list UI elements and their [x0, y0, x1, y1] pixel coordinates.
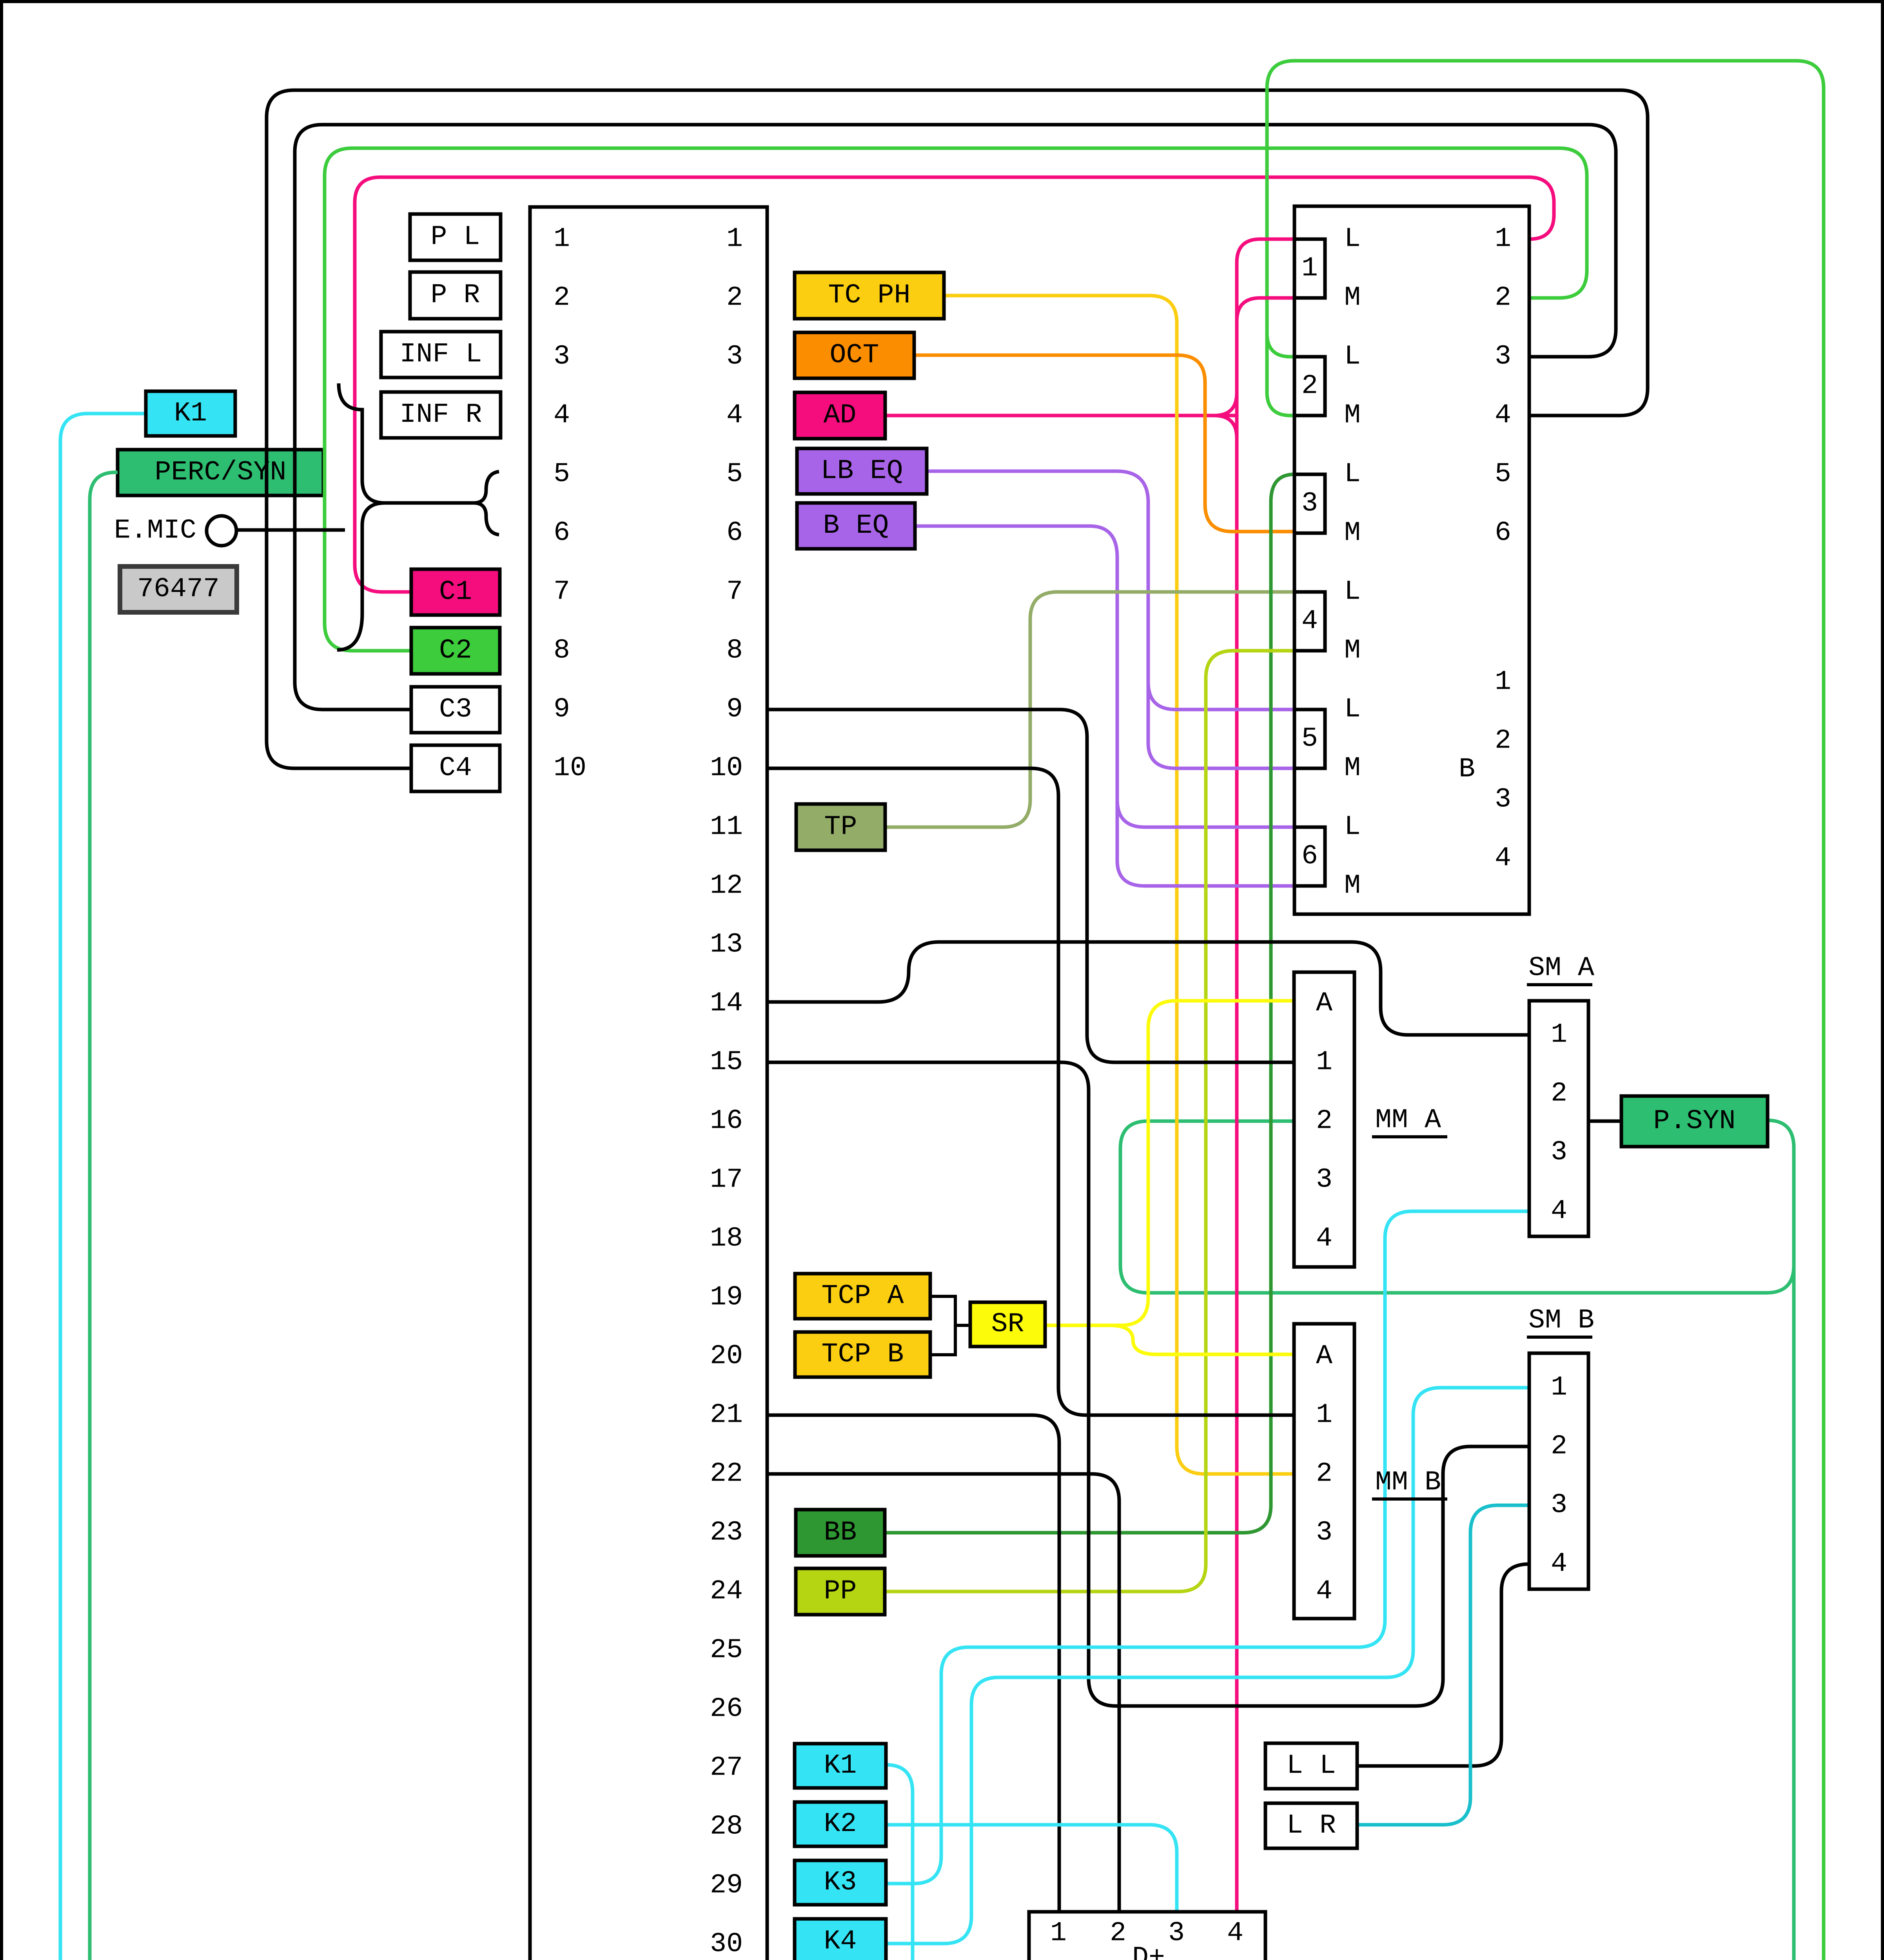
- B port 1: [1294, 239, 1325, 298]
- SM A title: [1527, 953, 1594, 985]
- wire BB to L3: [885, 474, 1294, 1533]
- PB right number 19: [710, 1282, 743, 1313]
- svg-text:9: 9: [554, 694, 570, 725]
- svg-text:TCP A: TCP A: [821, 1281, 904, 1312]
- B port 2: [1294, 357, 1325, 416]
- PB right number 2: [726, 283, 743, 314]
- svg-text:4: 4: [1316, 1223, 1332, 1254]
- B port 6: [1294, 827, 1325, 886]
- SM A pin 1: [1551, 1020, 1567, 1051]
- TP box: [796, 804, 885, 850]
- K3 box: [795, 1860, 886, 1905]
- svg-text:M: M: [1344, 400, 1361, 431]
- B port 5: [1294, 710, 1325, 768]
- wire row9 to MM A 1: [767, 710, 1294, 1062]
- MM A title: [1372, 1105, 1447, 1137]
- wire TC PH to MM B 2: [944, 296, 1294, 1474]
- svg-text:3: 3: [554, 341, 570, 372]
- PB right number 27: [710, 1753, 743, 1784]
- SM B pin 1: [1551, 1372, 1567, 1403]
- PB right number 30: [710, 1929, 743, 1960]
- C3 box: [411, 687, 500, 733]
- svg-text:76477: 76477: [137, 574, 220, 605]
- svg-text:11: 11: [710, 812, 743, 843]
- MM A label 4: [1316, 1223, 1332, 1254]
- svg-text:1: 1: [1316, 1047, 1332, 1078]
- K1 left box: [146, 391, 235, 436]
- svg-text:22: 22: [710, 1459, 743, 1490]
- svg-text:MM A: MM A: [1375, 1105, 1441, 1136]
- svg-text:2: 2: [1316, 1106, 1332, 1137]
- B M label 1: [1344, 283, 1361, 314]
- MM A label A: [1316, 988, 1332, 1019]
- wire SM A 2 to P.SYN: [1588, 1120, 1621, 1123]
- svg-text:2: 2: [1316, 1459, 1332, 1490]
- svg-text:M: M: [1344, 871, 1361, 902]
- svg-text:INF R: INF R: [399, 399, 482, 430]
- PB right number 26: [710, 1694, 743, 1725]
- wire D loop stub M2: [1267, 392, 1294, 416]
- B right number 6: [1495, 518, 1511, 549]
- svg-text:5: 5: [1495, 459, 1511, 490]
- wire SR to MM B A: [1045, 1325, 1294, 1354]
- SM B title: [1527, 1305, 1594, 1338]
- svg-text:8: 8: [554, 635, 570, 666]
- svg-text:TP: TP: [824, 812, 857, 843]
- SM A connector: [1529, 1001, 1588, 1236]
- wire L L to SM B 4: [1357, 1564, 1529, 1766]
- PERC/SYN box: [118, 450, 323, 495]
- B lower number 2: [1495, 726, 1511, 757]
- svg-text:2: 2: [554, 283, 570, 314]
- TC PH box: [795, 272, 944, 319]
- L L box: [1265, 1743, 1357, 1789]
- svg-text:15: 15: [710, 1047, 743, 1078]
- svg-text:K2: K2: [824, 1809, 857, 1840]
- svg-text:4: 4: [1551, 1549, 1567, 1580]
- PB right number 11: [710, 812, 743, 843]
- patch bay box: [530, 207, 767, 1960]
- svg-text:6: 6: [726, 518, 743, 549]
- B L label 3: [1344, 459, 1361, 490]
- svg-text:1: 1: [1551, 1020, 1567, 1051]
- svg-text:3: 3: [1168, 1918, 1185, 1949]
- B L label 1: [1344, 224, 1361, 255]
- MM A label 3: [1316, 1165, 1332, 1196]
- svg-text:3: 3: [1551, 1490, 1567, 1521]
- svg-text:P L: P L: [430, 222, 480, 253]
- svg-text:27: 27: [710, 1753, 743, 1784]
- PB right number 8: [726, 635, 743, 666]
- wire C1 loop to B right 1: [355, 177, 1554, 592]
- svg-text:L: L: [1344, 341, 1361, 372]
- B L label 2: [1344, 341, 1361, 372]
- PB left number 9: [554, 694, 570, 725]
- svg-text:4: 4: [554, 400, 570, 431]
- svg-text:3: 3: [726, 341, 743, 372]
- brace link line: [385, 501, 474, 505]
- svg-text:6: 6: [554, 518, 570, 549]
- wire LB EQ vertical: [927, 471, 1148, 743]
- wire row15 to SM B 2: [767, 1062, 1529, 1706]
- PB left number 4: [554, 400, 570, 431]
- PP box: [796, 1568, 885, 1615]
- B right number 3: [1495, 341, 1511, 372]
- wire K3 to SM A 4: [885, 1211, 1529, 1884]
- B M label 4: [1344, 635, 1361, 666]
- B L label 5: [1344, 694, 1361, 725]
- B right number 1: [1495, 224, 1511, 255]
- PB right number 23: [710, 1517, 743, 1548]
- PB right number 1: [726, 224, 743, 255]
- PB left number 1: [554, 224, 570, 255]
- B M label 5: [1344, 753, 1361, 784]
- svg-text:1: 1: [1551, 1372, 1567, 1403]
- left brace: [337, 383, 385, 650]
- B M label 2: [1344, 400, 1361, 431]
- wire LB EQ stub L5: [1148, 682, 1294, 710]
- svg-text:6: 6: [1495, 518, 1511, 549]
- PB left number 8: [554, 635, 570, 666]
- svg-text:13: 13: [710, 929, 743, 960]
- svg-text:1: 1: [1495, 667, 1511, 698]
- PB right number 20: [710, 1341, 743, 1372]
- svg-text:B EQ: B EQ: [823, 510, 889, 541]
- INF L box: [381, 332, 501, 377]
- wire OCT to M3: [914, 355, 1294, 532]
- wire pink fork curve up: [1214, 393, 1237, 416]
- svg-text:TCP B: TCP B: [821, 1339, 904, 1370]
- svg-text:18: 18: [710, 1223, 743, 1254]
- L R box: [1265, 1803, 1357, 1848]
- svg-text:3: 3: [1316, 1517, 1332, 1548]
- E.MIC line: [237, 528, 345, 532]
- PB right number 13: [710, 929, 743, 960]
- svg-text:D+: D+: [1132, 1943, 1165, 1960]
- wire C3 loop to B right 3: [295, 125, 1616, 710]
- PB right number 29: [710, 1870, 743, 1901]
- wire K1 left loop: [60, 414, 913, 1960]
- svg-text:L R: L R: [1287, 1810, 1336, 1841]
- B M label 6: [1344, 871, 1361, 902]
- K1 box: [795, 1744, 886, 1788]
- right brace fork to rows 5 6: [474, 472, 499, 535]
- PB left number 10: [554, 753, 586, 784]
- PB right number 22: [710, 1459, 743, 1490]
- svg-text:25: 25: [710, 1635, 743, 1666]
- svg-text:2: 2: [1495, 726, 1511, 757]
- svg-text:14: 14: [710, 988, 743, 1019]
- svg-text:2: 2: [1551, 1078, 1567, 1109]
- PB right number 5: [726, 459, 743, 490]
- wire PERC/SYN jade loop to P.SYN: [90, 472, 1794, 1960]
- C4 box: [411, 745, 500, 791]
- wire B EQ vertical: [915, 526, 1117, 860]
- svg-text:3: 3: [1551, 1137, 1567, 1168]
- PB right number 24: [710, 1576, 743, 1607]
- svg-text:M: M: [1344, 635, 1361, 666]
- PB right number 10: [710, 753, 743, 784]
- svg-text:C3: C3: [439, 694, 472, 725]
- svg-text:L: L: [1344, 577, 1361, 608]
- svg-text:C1: C1: [439, 577, 472, 608]
- svg-text:1: 1: [554, 224, 570, 255]
- B lower number 1: [1495, 667, 1511, 698]
- PB right number 3: [726, 341, 743, 372]
- wire LB EQ stub M5: [1148, 743, 1294, 768]
- wire pink vertical to D+ 4: [1235, 263, 1239, 1912]
- svg-text:1: 1: [726, 224, 743, 255]
- svg-text:C2: C2: [439, 635, 472, 666]
- svg-text:19: 19: [710, 1282, 743, 1313]
- svg-text:MM B: MM B: [1375, 1467, 1441, 1498]
- svg-text:10: 10: [554, 753, 586, 784]
- wire PP to M4: [885, 651, 1294, 1592]
- E.MIC label: [114, 515, 196, 546]
- svg-text:L: L: [1344, 459, 1361, 490]
- MM B label A: [1316, 1341, 1332, 1372]
- wire AD horizontal: [885, 414, 1237, 417]
- svg-text:1: 1: [1301, 253, 1318, 284]
- PB right number 15: [710, 1047, 743, 1078]
- svg-text:5: 5: [554, 459, 570, 490]
- wire row22 to D+ 2: [767, 1474, 1119, 1912]
- svg-text:2: 2: [1301, 371, 1318, 402]
- 76477 box: [120, 566, 237, 612]
- svg-text:INF L: INF L: [399, 339, 482, 370]
- wire jade branch to MM A 2: [1120, 1121, 1794, 1293]
- svg-text:16: 16: [710, 1106, 743, 1137]
- wire B EQ stub L6: [1117, 800, 1294, 827]
- SM A pin 4: [1551, 1196, 1567, 1227]
- svg-text:LB EQ: LB EQ: [820, 456, 903, 487]
- wire C4 loop to B right 4: [267, 90, 1648, 768]
- wire pink fork curve down: [1214, 416, 1237, 438]
- SM B connector: [1529, 1353, 1588, 1589]
- MM B connector: [1294, 1324, 1354, 1619]
- wire row21 to D+ 1: [767, 1415, 1059, 1912]
- BB box: [796, 1510, 885, 1556]
- P.SYN box: [1621, 1096, 1768, 1147]
- MM B label 1: [1316, 1400, 1332, 1431]
- C2 box: [411, 628, 500, 674]
- svg-text:AD: AD: [823, 400, 856, 431]
- PB left number 3: [554, 341, 570, 372]
- B port 4: [1294, 592, 1325, 651]
- svg-text:4: 4: [1551, 1196, 1567, 1227]
- SR box: [970, 1302, 1045, 1347]
- svg-text:2: 2: [726, 283, 743, 314]
- svg-text:20: 20: [710, 1341, 743, 1372]
- wire K2 to D+ 3: [885, 1825, 1177, 1912]
- svg-text:BB: BB: [824, 1517, 857, 1548]
- svg-text:30: 30: [710, 1929, 743, 1960]
- svg-text:A: A: [1316, 988, 1332, 1019]
- svg-text:A: A: [1316, 1341, 1332, 1372]
- PB right number 9: [726, 694, 743, 725]
- B L label 6: [1344, 812, 1361, 843]
- svg-text:3: 3: [1495, 784, 1511, 815]
- svg-text:28: 28: [710, 1811, 743, 1842]
- K2 box: [795, 1802, 886, 1846]
- TCP A box: [795, 1274, 930, 1319]
- svg-text:SR: SR: [991, 1309, 1024, 1340]
- B letter: [1459, 754, 1475, 785]
- svg-text:SM A: SM A: [1528, 953, 1594, 984]
- svg-text:E.MIC: E.MIC: [114, 515, 196, 546]
- svg-text:9: 9: [726, 694, 743, 725]
- svg-text:SM B: SM B: [1528, 1305, 1594, 1336]
- svg-text:P.SYN: P.SYN: [1653, 1106, 1735, 1137]
- SM A pin 2: [1551, 1078, 1567, 1109]
- PB right number 17: [710, 1165, 743, 1196]
- wire row14 to SM A 1: [767, 942, 1529, 1035]
- svg-text:7: 7: [554, 577, 570, 608]
- svg-text:4: 4: [1301, 606, 1318, 637]
- PB right number 28: [710, 1811, 743, 1842]
- svg-text:24: 24: [710, 1576, 743, 1607]
- PB left number 6: [554, 518, 570, 549]
- B M label 3: [1344, 518, 1361, 549]
- wire C2 loop to B right 2: [325, 148, 1587, 651]
- SM B pin 2: [1551, 1431, 1567, 1462]
- svg-text:4: 4: [1316, 1576, 1332, 1607]
- MM A label 2: [1316, 1106, 1332, 1137]
- PB left number 2: [554, 283, 570, 314]
- svg-text:L: L: [1344, 694, 1361, 725]
- PB right number 6: [726, 518, 743, 549]
- svg-text:4: 4: [726, 400, 743, 431]
- MM B label 3: [1316, 1517, 1332, 1548]
- svg-text:M: M: [1344, 283, 1361, 314]
- C1 box: [411, 569, 500, 615]
- svg-text:TC PH: TC PH: [828, 280, 910, 311]
- INF R box: [381, 392, 501, 438]
- P L box: [410, 214, 501, 260]
- svg-text:2: 2: [1495, 283, 1511, 314]
- wire B EQ stub M6: [1117, 860, 1294, 886]
- svg-text:3: 3: [1316, 1165, 1332, 1196]
- PB left number 7: [554, 577, 570, 608]
- PB left number 5: [554, 459, 570, 490]
- D+ box: [1029, 1912, 1265, 1960]
- svg-text:1: 1: [1050, 1918, 1067, 1949]
- svg-text:K1: K1: [824, 1750, 857, 1781]
- svg-text:L L: L L: [1287, 1751, 1336, 1782]
- svg-text:23: 23: [710, 1517, 743, 1548]
- B L label 4: [1344, 577, 1361, 608]
- wire pink stub M1: [1237, 298, 1294, 321]
- svg-text:4: 4: [1495, 400, 1511, 431]
- PB right number 18: [710, 1223, 743, 1254]
- P R box: [410, 272, 501, 319]
- svg-text:L: L: [1344, 224, 1361, 255]
- wire D loop stub L2: [1267, 333, 1294, 357]
- wire row10 to MM B 1: [767, 768, 1294, 1415]
- svg-text:M: M: [1344, 518, 1361, 549]
- B right number 4: [1495, 400, 1511, 431]
- MM B label 4: [1316, 1576, 1332, 1607]
- svg-text:5: 5: [1301, 724, 1318, 755]
- svg-text:1: 1: [1495, 224, 1511, 255]
- E.MIC circle: [207, 516, 236, 546]
- wire SR to MM A A: [1045, 1001, 1294, 1325]
- svg-text:K4: K4: [824, 1926, 857, 1957]
- B lower number 3: [1495, 784, 1511, 815]
- B box: [1294, 206, 1529, 914]
- OCT box: [795, 332, 914, 378]
- wire K4 to SM B 1: [885, 1388, 1529, 1944]
- wire pink stub L1: [1237, 239, 1294, 263]
- svg-text:10: 10: [710, 753, 743, 784]
- svg-text:29: 29: [710, 1870, 743, 1901]
- svg-text:K1: K1: [174, 398, 207, 429]
- svg-text:1: 1: [1316, 1400, 1332, 1431]
- svg-text:17: 17: [710, 1165, 743, 1196]
- PB right number 14: [710, 988, 743, 1019]
- B EQ box: [797, 503, 915, 549]
- K4 box: [795, 1919, 886, 1960]
- svg-text:L: L: [1344, 812, 1361, 843]
- PB right number 25: [710, 1635, 743, 1666]
- SM B pin 3: [1551, 1490, 1567, 1521]
- MM A connector: [1294, 972, 1354, 1267]
- svg-text:2: 2: [1551, 1431, 1567, 1462]
- PB right number 7: [726, 577, 743, 608]
- svg-text:3: 3: [1495, 341, 1511, 372]
- svg-text:C4: C4: [439, 753, 472, 784]
- svg-text:5: 5: [726, 459, 743, 490]
- svg-text:26: 26: [710, 1694, 743, 1725]
- svg-text:2: 2: [1110, 1918, 1126, 1949]
- svg-text:P R: P R: [430, 280, 480, 311]
- SM A pin 3: [1551, 1137, 1567, 1168]
- B port 3: [1294, 474, 1325, 533]
- svg-text:B: B: [1459, 754, 1475, 785]
- svg-text:OCT: OCT: [829, 340, 879, 371]
- svg-text:8: 8: [726, 635, 743, 666]
- svg-text:3: 3: [1301, 488, 1318, 519]
- MM A label 1: [1316, 1047, 1332, 1078]
- MM B label 2: [1316, 1459, 1332, 1490]
- MM B title: [1372, 1467, 1447, 1499]
- B right number 2: [1495, 283, 1511, 314]
- svg-text:K3: K3: [824, 1867, 857, 1898]
- AD box: [795, 392, 885, 439]
- wire D loop to ports L2 M2: [1175, 61, 1824, 1960]
- TCP A/B bracket: [930, 1296, 970, 1355]
- TCP B box: [795, 1332, 930, 1377]
- PB right number 4: [726, 400, 743, 431]
- wire TP to L4: [885, 592, 1294, 827]
- PB right number 12: [710, 871, 743, 902]
- svg-text:7: 7: [726, 577, 743, 608]
- svg-text:PP: PP: [824, 1576, 857, 1607]
- B lower number 4: [1495, 843, 1511, 874]
- svg-text:4: 4: [1227, 1918, 1243, 1949]
- svg-text:4: 4: [1495, 843, 1511, 874]
- PB right number 16: [710, 1106, 743, 1137]
- svg-text:21: 21: [710, 1400, 743, 1431]
- wire L R to SM B 3: [1357, 1505, 1529, 1825]
- LB EQ box: [797, 448, 927, 494]
- SM B pin 4: [1551, 1549, 1567, 1580]
- svg-text:M: M: [1344, 753, 1361, 784]
- B right number 5: [1495, 459, 1511, 490]
- PB right number 21: [710, 1400, 743, 1431]
- svg-text:12: 12: [710, 871, 743, 902]
- svg-text:6: 6: [1301, 841, 1318, 872]
